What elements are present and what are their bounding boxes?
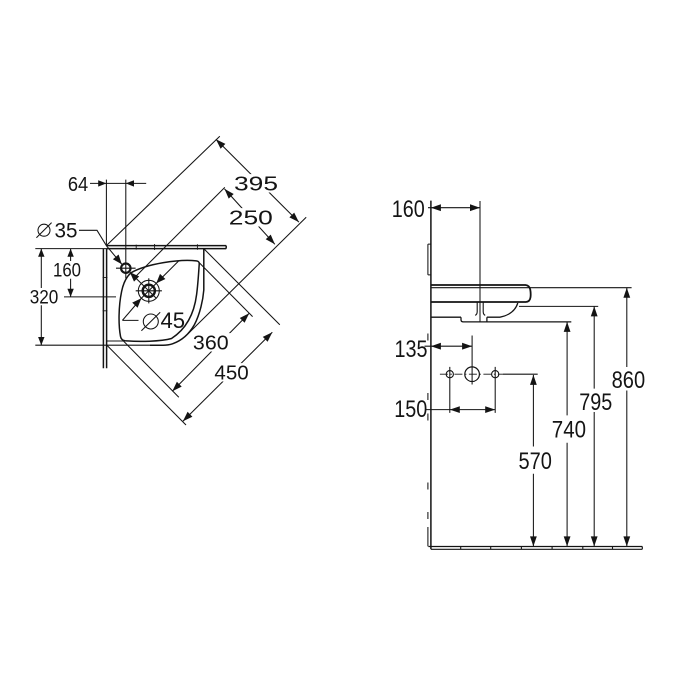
left wall joint ticks [103,278,108,311]
dimension 795 [593,306,595,546]
diagonal extension from rim top-right corner (for 450) [204,249,280,325]
drain centerlines [136,278,162,303]
faucet hole [121,264,130,273]
faucet axis extension [479,201,481,322]
faucet through-hole [475,302,485,315]
svg-text:450: 450 [214,363,248,385]
diameter label Ø35 [38,224,50,236]
top wall joint ticks [136,244,197,250]
795 extension / bowl inner line [519,305,598,307]
svg-text:150: 150 [394,396,427,423]
svg-text:160: 160 [53,261,81,282]
dimension 320 (left view) [40,249,42,346]
svg-text:250: 250 [229,208,273,230]
wall (side view) [430,201,432,550]
drain outer circle [138,280,159,301]
svg-text:395: 395 [234,174,278,196]
dimension 160 (side view) [428,207,480,209]
svg-text:135: 135 [395,336,428,363]
floor ticks [461,547,613,550]
860 extension [431,287,632,289]
diagonal extension from bowl bottom-left corner (for 360) [123,341,179,397]
basin underside [431,303,518,317]
svg-text:160: 160 [392,196,425,223]
svg-text:860: 860 [612,367,646,394]
floor (double line) [428,547,642,550]
top wall (double line) [106,246,226,249]
svg-text:795: 795 [579,389,612,416]
dimension 64 [90,182,146,184]
diagonal extension from bowl top-right corner (for 360) [199,262,253,316]
svg-text:320: 320 [30,288,59,309]
basin profile (side view) [431,285,531,302]
mounting holes centerline (dash-dot) [440,373,503,375]
dimension 135 [425,345,473,347]
diagonal extension line through wall corner (for 395) [107,136,220,245]
svg-text:570: 570 [519,448,552,475]
basin rim outline + front edge extension [150,249,204,345]
dimension 250 [225,189,275,244]
drain boss + 740 extension [461,317,571,322]
bowl-to-wall bottom stub [107,340,124,342]
diameter label Ø45 [143,314,158,329]
left wall (double line) [103,249,106,369]
basin bowl (leaf outline, top view) [119,260,199,341]
dimension 450 [183,332,272,421]
drain hole (bold ring) [143,285,155,297]
dimension 570 [532,375,534,547]
dimension 360 [172,313,249,391]
Ø35 leader [79,230,122,264]
dimension 740 [566,322,568,547]
svg-text:45: 45 [161,308,186,333]
dimension 860 [626,288,628,547]
svg-text:64: 64 [68,174,88,196]
big mounting hole [465,367,480,382]
dimension 160 (left view) [70,249,72,297]
svg-text:360: 360 [193,333,229,355]
dimension 64 extension lines [106,180,125,279]
diagonal extension line (for 250) [134,187,225,278]
Ø45 leader + diameter line [122,261,178,320]
diagonal extension line at rim front (for 395/250) [188,217,306,333]
wall back line dashes [428,244,431,275]
svg-text:35: 35 [55,219,78,242]
dimension 395 [216,139,299,222]
svg-text:740: 740 [552,417,586,444]
faucet-drain axis + faucet SE arrow [130,272,157,298]
dimension 150 [426,409,495,411]
small mounting holes [446,371,453,378]
diagonal extension from wall bottom corner (for 450) [107,345,186,425]
